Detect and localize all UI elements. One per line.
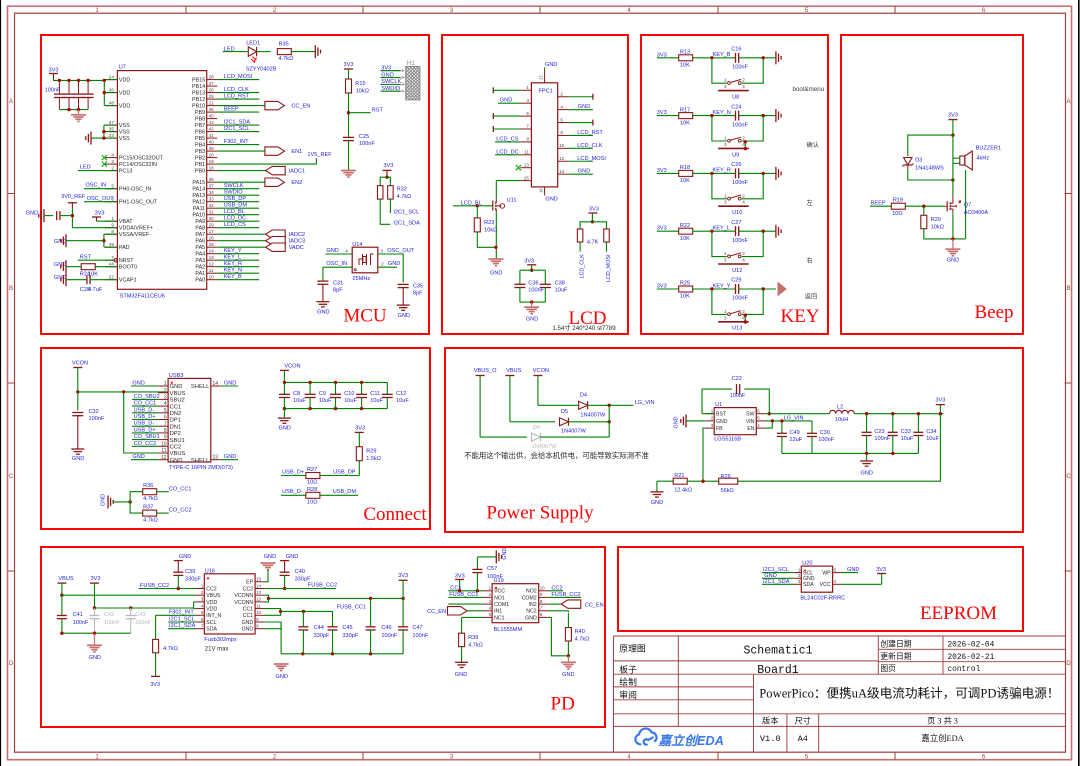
resistor R39 4.7k <box>459 633 465 646</box>
wire cap bottom pd <box>332 630 334 654</box>
svg-text:C46: C46 <box>381 625 391 631</box>
wire C49 top stub <box>781 421 783 433</box>
svg-text:CC_EN: CC_EN <box>291 104 310 110</box>
wire FPC pin12 <box>569 160 593 162</box>
junction <box>744 320 747 323</box>
no-connect PC15 <box>102 155 107 160</box>
svg-text:3V3: 3V3 <box>150 682 160 688</box>
svg-text:INT_N: INT_N <box>206 613 221 619</box>
U19 pin1 marker <box>495 587 497 589</box>
svg-text:VBUS: VBUS <box>170 451 186 457</box>
svg-text:33: 33 <box>209 197 215 202</box>
wire C42 stub <box>94 608 96 615</box>
svg-text:KEY_Y: KEY_Y <box>224 248 242 254</box>
U1 pins <box>705 409 765 433</box>
wire C8 bottom <box>283 398 285 409</box>
svg-text:GND: GND <box>526 317 538 323</box>
capacitor C23 100nF <box>862 432 872 435</box>
svg-text:VCC: VCC <box>494 589 505 595</box>
svg-text:C10: C10 <box>344 391 354 397</box>
svg-text:页 3 共 3: 页 3 共 3 <box>927 716 958 725</box>
U16 pins <box>195 577 264 633</box>
wire switch left U9 <box>712 116 727 141</box>
capacitor bank C 100nF x4 <box>54 80 94 109</box>
svg-text:100nF: 100nF <box>732 180 748 186</box>
svg-text:Beep: Beep <box>974 302 1013 323</box>
svg-text:A4: A4 <box>798 734 808 744</box>
svg-text:D5: D5 <box>561 409 568 415</box>
svg-text:100nF: 100nF <box>818 437 834 443</box>
svg-text:100nF: 100nF <box>732 65 748 71</box>
wire COM2 row <box>548 596 581 598</box>
section border EEPROM <box>618 547 1023 631</box>
wire R22 to C27 <box>693 230 736 232</box>
svg-text:CC2: CC2 <box>206 586 216 592</box>
svg-text:5: 5 <box>526 111 529 116</box>
wire C28 to VCAP1 <box>90 279 117 281</box>
svg-text:PB6: PB6 <box>195 130 205 136</box>
junction <box>762 287 765 290</box>
svg-text:R13: R13 <box>680 50 690 56</box>
wire pin47 <box>104 124 118 126</box>
resistor R22 10K <box>679 228 693 234</box>
svg-text:10: 10 <box>161 441 167 447</box>
junction <box>369 597 372 600</box>
svg-text:4.7kΩ: 4.7kΩ <box>143 496 158 502</box>
svg-text:SW: SW <box>746 412 754 418</box>
capacitor C25 100nF <box>343 137 354 140</box>
wire VCON to D4 <box>538 404 578 406</box>
capacitor C8 10uF <box>279 394 290 397</box>
svg-text:KEY_N: KEY_N <box>224 268 242 274</box>
wire cap bottom pd <box>370 630 372 654</box>
wire gnd to C <box>44 215 53 217</box>
svg-text:39: 39 <box>209 146 215 151</box>
svg-text:36: 36 <box>109 87 115 92</box>
wire GND down pd <box>280 625 282 654</box>
wire VDD join <box>103 80 105 105</box>
svg-text:PA7: PA7 <box>195 232 205 238</box>
svg-text:11: 11 <box>524 150 529 155</box>
U7 left pins <box>105 74 164 283</box>
capacitor C33 10uF <box>888 432 898 435</box>
wire R26 to 3V3 <box>738 414 941 482</box>
wire usb pin12 <box>131 459 158 461</box>
svg-text:1: 1 <box>724 251 727 256</box>
svg-text:D: D <box>9 661 14 667</box>
wire net LCD_CS <box>217 227 259 229</box>
wire GND ee <box>762 577 793 579</box>
wire usb pin14 <box>221 385 238 387</box>
svg-text:VBUS: VBUS <box>58 576 74 582</box>
svg-text:23: 23 <box>109 133 115 138</box>
junction <box>567 654 570 657</box>
wire net KEY_N <box>217 272 259 274</box>
wire C10 top <box>335 382 337 394</box>
wire Q7 source down <box>952 213 954 239</box>
FPC1 pin 16 stub <box>539 187 545 196</box>
svg-text:GND: GND <box>89 655 101 661</box>
svg-text:LCD_MOSI: LCD_MOSI <box>577 156 606 162</box>
svg-text:10kΩ: 10kΩ <box>931 224 944 230</box>
svg-text:30: 30 <box>209 216 215 221</box>
wire pin15 to U11 drain <box>495 181 497 199</box>
wire VCON to C32 <box>77 392 79 411</box>
wire C41 stub <box>61 595 63 615</box>
svg-text:GND: GND <box>716 419 728 425</box>
capacitor C57 100nF <box>472 569 482 572</box>
svg-text:SHELL: SHELL <box>191 384 210 390</box>
svg-text:9: 9 <box>164 435 167 441</box>
svg-text:14: 14 <box>559 169 565 174</box>
svg-text:VSS: VSS <box>119 123 130 129</box>
wire VCON to VBUS pin2 <box>78 391 168 393</box>
wire C11 bottom <box>361 398 363 409</box>
junction <box>347 111 350 114</box>
U20 pins <box>793 567 840 588</box>
wire C32 to gnd <box>77 416 79 449</box>
power VBUS_O bar <box>476 376 485 438</box>
wire usb USB_D+ <box>132 432 158 434</box>
svg-text:GND: GND <box>170 458 183 464</box>
svg-text:3: 3 <box>164 395 167 401</box>
wire FPC pin8 <box>569 134 593 136</box>
FPC1 right pin stubs <box>558 91 569 174</box>
svg-text:10uF: 10uF <box>370 398 383 404</box>
wire IADC1 <box>217 170 266 172</box>
svg-text:LG_VIN: LG_VIN <box>784 415 804 421</box>
svg-text:NO1: NO1 <box>494 595 505 601</box>
svg-text:CC1: CC1 <box>243 607 253 613</box>
svg-text:3V3: 3V3 <box>935 397 945 403</box>
svg-text:C: C <box>1066 474 1071 480</box>
resistor R13 10K <box>679 55 693 61</box>
svg-text:GND: GND <box>242 620 254 626</box>
capacitor C39 330pF <box>173 572 183 575</box>
wire D4 out <box>588 404 610 406</box>
junction <box>93 632 96 635</box>
annotation 确认 <box>807 141 819 149</box>
svg-text:KEY_N: KEY_N <box>713 110 731 116</box>
svg-text:FUSB_CC2: FUSB_CC2 <box>308 582 337 588</box>
section title LCD <box>569 308 607 329</box>
wire C25 to gnd <box>348 141 350 171</box>
svg-text:R36: R36 <box>143 483 153 489</box>
buzzer BUZZER1 <box>953 151 972 170</box>
svg-text:8: 8 <box>560 130 563 135</box>
svg-text:PA0: PA0 <box>195 278 205 284</box>
wire gnd U1 <box>686 420 705 422</box>
svg-text:RST: RST <box>372 107 384 113</box>
junction <box>283 587 286 590</box>
LED LED1 SZYY0402B <box>248 47 256 63</box>
wire INT row <box>156 614 196 616</box>
svg-text:11: 11 <box>161 448 166 454</box>
svg-text:10K: 10K <box>680 294 690 300</box>
junction <box>762 114 765 117</box>
svg-text:2: 2 <box>742 78 745 83</box>
svg-text:R17: R17 <box>680 107 690 113</box>
svg-text:4.7kΩ: 4.7kΩ <box>397 194 412 200</box>
ground U1 <box>681 414 686 427</box>
junction <box>939 412 942 415</box>
svg-text:FB: FB <box>716 426 723 432</box>
wire net LCD_DC <box>217 220 259 222</box>
wire switch right U9 <box>742 116 763 141</box>
svg-text:C29: C29 <box>731 278 741 284</box>
wire FPC pin7 <box>493 128 520 130</box>
svg-text:EN2: EN2 <box>291 180 302 186</box>
svg-text:19: 19 <box>209 159 215 164</box>
svg-text:2026-02-21: 2026-02-21 <box>948 654 995 662</box>
wire 3V3 to D3 <box>908 135 953 156</box>
svg-text:GND: GND <box>381 72 393 78</box>
svg-text:PB10: PB10 <box>192 104 205 110</box>
svg-text:U8: U8 <box>732 95 739 101</box>
junction <box>476 589 479 592</box>
svg-text:LCD_MOSI: LCD_MOSI <box>606 254 612 282</box>
wire FPC pin2 <box>569 96 593 98</box>
wire VIN LG_VIN <box>765 420 812 422</box>
junction <box>710 172 713 175</box>
wire CC1 tie <box>264 609 281 616</box>
svg-text:LG_VIN: LG_VIN <box>635 400 655 406</box>
wire net KEY_B <box>217 279 259 281</box>
svg-text:STM32F411CEU6: STM32F411CEU6 <box>120 294 165 300</box>
svg-text:13: 13 <box>209 255 215 260</box>
power 3V3 vconn bar <box>399 580 408 598</box>
svg-text:PA13: PA13 <box>192 193 205 199</box>
svg-text:5: 5 <box>164 408 167 414</box>
svg-text:3V3: 3V3 <box>383 163 393 169</box>
svg-text:BOOT0: BOOT0 <box>119 265 137 271</box>
wire OSC_IN <box>84 188 117 190</box>
svg-text:COM2: COM2 <box>522 595 537 601</box>
svg-text:BUZZER1: BUZZER1 <box>976 145 1002 151</box>
flag EN1 output <box>265 147 302 155</box>
junction <box>476 204 479 207</box>
svg-text:3V3: 3V3 <box>589 206 599 212</box>
annotation 返回 <box>805 294 817 301</box>
power 3V3 beep bar <box>948 120 957 136</box>
wire R37 out <box>157 512 169 514</box>
svg-text:SWCLK: SWCLK <box>224 183 244 189</box>
terminal FPC pin7 <box>492 126 494 132</box>
wire R21 gnd stub <box>656 481 658 492</box>
svg-text:R22: R22 <box>680 223 690 229</box>
svg-text:LCD_CLK: LCD_CLK <box>580 254 586 279</box>
U19 pins <box>483 586 548 622</box>
wire NO1 row <box>448 596 483 598</box>
svg-text:330pF: 330pF <box>342 633 358 639</box>
section title MCU <box>343 306 387 327</box>
wire 1V5_REF <box>217 158 316 164</box>
wire IN2 row <box>548 603 562 605</box>
svg-text:42: 42 <box>209 126 215 131</box>
wire to VBUS pin11 <box>124 392 168 453</box>
svg-text:GND: GND <box>276 674 288 680</box>
svg-text:GND: GND <box>545 196 557 202</box>
svg-text:100nF: 100nF <box>528 288 544 294</box>
wire LED to PC13 <box>78 170 117 172</box>
svg-text:U7: U7 <box>119 65 126 71</box>
diode D6 1N4007W DNP <box>532 433 541 441</box>
svg-text:C24: C24 <box>731 104 741 110</box>
flag CC_EN output <box>265 101 310 109</box>
wire OSC_OUT <box>84 201 117 203</box>
svg-text:CC2: CC2 <box>243 586 253 592</box>
wire C43 bottom <box>130 619 132 633</box>
flag IADC2 input <box>266 230 305 238</box>
capacitor C27 100nF <box>736 226 739 236</box>
svg-text:100nF: 100nF <box>730 393 746 399</box>
svg-text:100nF: 100nF <box>359 141 375 147</box>
wire switch pin4 stub U13 <box>744 314 746 322</box>
wire C34 top <box>917 414 919 433</box>
svg-text:16: 16 <box>209 236 215 241</box>
svg-text:U13: U13 <box>732 326 742 332</box>
svg-text:LED1: LED1 <box>246 40 260 46</box>
svg-text:C38: C38 <box>555 281 565 287</box>
wire C12 top <box>386 382 388 394</box>
wire FPC pin9 <box>495 141 520 143</box>
svg-text:LCD_CS: LCD_CS <box>224 222 246 228</box>
svg-text:PC13: PC13 <box>119 169 132 175</box>
svg-text:GND: GND <box>947 258 959 264</box>
svg-text:绘制: 绘制 <box>619 676 637 687</box>
svg-text:GND: GND <box>264 554 276 560</box>
U20 pin1 marker <box>804 570 806 572</box>
svg-text:PB9: PB9 <box>195 110 205 116</box>
svg-text:control: control <box>948 666 981 674</box>
wire 3V3 to R25 <box>657 288 679 290</box>
svg-text:37: 37 <box>209 184 215 189</box>
wire cap bank bottom <box>59 109 88 111</box>
wire VBUS_O to D6 <box>480 436 527 438</box>
svg-text:D6: D6 <box>533 425 540 431</box>
wire INT to R <box>155 615 157 639</box>
capacitor C16 100nF <box>736 53 739 63</box>
junction <box>401 597 404 600</box>
junction <box>77 79 80 82</box>
svg-text:IADC1: IADC1 <box>289 169 305 175</box>
svg-text:U14: U14 <box>352 242 362 248</box>
svg-text:3V3: 3V3 <box>948 113 958 119</box>
svg-text:GND: GND <box>578 169 590 175</box>
wire FB down <box>703 428 705 481</box>
junction <box>334 381 337 384</box>
resistor R20 10k <box>921 215 927 228</box>
power 3V3 R29 bar <box>355 432 364 447</box>
wire 3V3 to R17 <box>657 115 679 117</box>
wire bank to gnd <box>283 409 285 418</box>
svg-text:3V3: 3V3 <box>91 576 101 582</box>
wire R20 to source rail <box>924 229 966 239</box>
diode D5 1N4007W <box>560 418 569 426</box>
wire U14 pin3 to C35 <box>378 254 403 282</box>
U7 right pins PB15-PB0 <box>192 74 217 174</box>
svg-text:3V3: 3V3 <box>49 67 59 73</box>
connector H1 SWD header <box>406 67 420 100</box>
wire 3V3 rail <box>54 79 105 81</box>
wire gate node to R20 <box>923 206 925 215</box>
wire C30 bottom <box>811 437 813 454</box>
svg-text:LCD_MOSI: LCD_MOSI <box>224 74 253 80</box>
resistor R21 12.4k <box>673 478 687 484</box>
svg-text:PB3: PB3 <box>195 149 205 155</box>
svg-text:VBAT: VBAT <box>119 219 133 225</box>
svg-text:VCON: VCON <box>533 368 549 374</box>
svg-text:45: 45 <box>209 113 215 118</box>
svg-text:22: 22 <box>109 275 115 280</box>
wire C33 bottom <box>892 436 894 454</box>
svg-text:C45: C45 <box>342 625 352 631</box>
resistor R26 56k <box>719 478 738 484</box>
svg-text:2: 2 <box>742 309 745 314</box>
svg-text:R23: R23 <box>484 220 494 226</box>
svg-text:PA1: PA1 <box>195 271 205 277</box>
power VCON ps bar <box>533 376 542 406</box>
section title Power Supply <box>486 502 594 523</box>
svg-text:PA11: PA11 <box>193 206 205 212</box>
wire IADC3 <box>217 240 266 242</box>
wire to RP2 <box>592 222 606 229</box>
svg-text:C34: C34 <box>926 429 936 435</box>
wire C42 bottom <box>94 619 96 633</box>
ground U16 <box>274 664 289 671</box>
junction <box>86 79 89 82</box>
svg-text:左: 左 <box>807 199 813 207</box>
svg-text:R19: R19 <box>893 198 903 204</box>
junction <box>102 136 105 139</box>
svg-text:PB14: PB14 <box>192 84 205 90</box>
junction <box>710 287 713 290</box>
capacitor C44 330pF <box>298 627 308 630</box>
svg-text:2: 2 <box>111 165 114 170</box>
junction <box>608 420 611 423</box>
wire R28 to USB_DM <box>320 494 358 496</box>
section border Beep <box>841 35 1023 334</box>
svg-text:USB_DM: USB_DM <box>224 203 248 209</box>
wire usb CO_CC2 <box>132 445 158 447</box>
flag IADC3 input <box>266 237 305 245</box>
svg-text:C25: C25 <box>359 134 369 140</box>
svg-text:3V3: 3V3 <box>398 573 408 579</box>
resistor R23 10k <box>474 218 480 232</box>
svg-text:4: 4 <box>111 152 114 157</box>
junction <box>177 587 180 590</box>
wire C12 bottom <box>386 398 388 409</box>
resistor R32 4.7k <box>388 186 394 199</box>
svg-text:R25: R25 <box>680 281 690 287</box>
wire to LG_VIN <box>609 404 633 406</box>
svg-text:USB_DM: USB_DM <box>333 489 357 495</box>
svg-text:R35: R35 <box>279 42 289 48</box>
net label GND U1 rotated <box>674 416 680 428</box>
svg-text:PB13: PB13 <box>192 91 205 97</box>
svg-text:V1.0: V1.0 <box>760 734 781 744</box>
wire net KEY_R <box>217 266 259 268</box>
wire SDA ee <box>762 583 793 585</box>
svg-text:1: 1 <box>724 309 727 314</box>
svg-text:R27: R27 <box>307 467 317 473</box>
section border PD <box>41 547 605 727</box>
wire gnd to R21 <box>657 480 674 482</box>
svg-text:3V3: 3V3 <box>344 62 354 68</box>
wire R21 to node <box>687 480 719 482</box>
svg-text:C27: C27 <box>731 220 741 226</box>
svg-text:F302_INT: F302_INT <box>224 139 249 145</box>
